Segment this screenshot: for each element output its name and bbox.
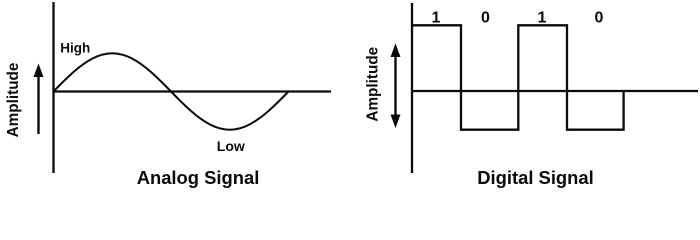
left x-axis <box>54 90 332 92</box>
svg-text:Amplitude: Amplitude <box>365 47 382 122</box>
svg-text:0: 0 <box>595 9 604 26</box>
left up arrow <box>34 64 44 135</box>
svg-text:1: 1 <box>538 9 547 26</box>
square wave <box>412 25 624 129</box>
right double-headed arrow <box>391 44 401 129</box>
svg-text:Low: Low <box>217 138 245 154</box>
right x-axis center line <box>412 90 698 92</box>
right y-axis <box>411 3 413 173</box>
sine wave <box>54 53 289 129</box>
left y-axis <box>52 2 54 173</box>
svg-text:0: 0 <box>481 9 490 26</box>
svg-text:1: 1 <box>432 9 441 26</box>
svg-text:Analog Signal: Analog Signal <box>137 167 260 188</box>
svg-text:Amplitude: Amplitude <box>5 63 22 138</box>
svg-text:High: High <box>60 40 90 55</box>
svg-text:Digital Signal: Digital Signal <box>477 167 594 188</box>
